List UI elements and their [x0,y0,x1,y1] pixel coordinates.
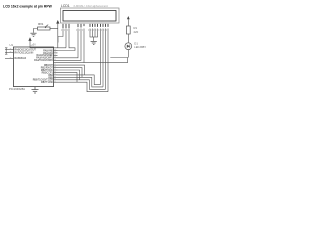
svg-text:PIC16F628A: PIC16F628A [9,87,25,91]
svg-text:RB7/T1OSI: RB7/T1OSI [41,82,53,84]
svg-text:+5V: +5V [32,44,37,47]
svg-text:LCD1: LCD1 [61,4,70,8]
svg-text:LCD 16x2 example at pin RPW: LCD 16x2 example at pin RPW [3,5,53,9]
svg-text:RA4/T0CKI/CMP2: RA4/T0CKI/CMP2 [34,59,53,62]
svg-text:220: 220 [134,30,139,34]
svg-text:RA7/OSC1/CLKIN: RA7/OSC1/CLKIN [15,51,34,54]
svg-text:LED-BIBY: LED-BIBY [134,45,146,49]
svg-text:RV1: RV1 [38,22,44,26]
svg-text:D1: D1 [134,41,138,45]
svg-text:<LM016L> 16x2 alphanumeric: <LM016L> 16x2 alphanumeric [73,4,109,8]
svg-text:RA6/OSC2/CLKOUT: RA6/OSC2/CLKOUT [15,48,37,51]
svg-text:U1: U1 [10,43,14,47]
svg-text:RA5/MCLR: RA5/MCLR [15,57,27,60]
